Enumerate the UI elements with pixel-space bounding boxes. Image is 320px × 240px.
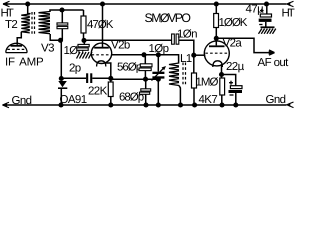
triode V2b envelope — [91, 43, 111, 63]
triode V2a envelope — [204, 41, 229, 66]
capacitor 560p stem bottom — [144, 71, 146, 80]
wire L1 top lead — [158, 55, 178, 64]
V3 anode bar — [11, 45, 23, 47]
node secondary top / tuning cap — [59, 7, 64, 12]
HT arrow left — [3, 1, 10, 7]
variable capacitor stem top — [157, 55, 159, 72]
wire L1 bottom lead — [179, 86, 180, 106]
capacitor 22u bottom lead — [235, 93, 237, 105]
svg-text:22µ: 22µ — [226, 61, 245, 73]
svg-text:Gnd: Gnd — [12, 95, 32, 107]
V2a grid (dashed) — [205, 52, 228, 54]
node J anode/AF junction — [214, 36, 219, 41]
wire bus node E to node D — [111, 78, 159, 80]
svg-text:AF out: AF out — [258, 57, 290, 69]
V2a cathode — [213, 61, 223, 67]
wire AF takeoff — [216, 38, 272, 52]
inductor L1 winding — [169, 63, 179, 86]
svg-text:IF AMP: IF AMP — [5, 57, 44, 69]
capacitor 680p bottom lead — [145, 94, 147, 105]
svg-text:47ØK: 47ØK — [87, 19, 114, 31]
resistor 470K bottom lead — [83, 33, 85, 40]
wire W1 coupling line from node B — [84, 39, 172, 41]
resistor 470K top lead — [83, 10, 85, 16]
Gnd rail — [3, 104, 287, 106]
node var cap ground — [156, 102, 161, 107]
node 560p top — [141, 52, 146, 57]
chassis ground 47u — [261, 26, 275, 28]
capacitor 22u minus — [230, 94, 234, 96]
transformer T2 secondary winding — [39, 12, 51, 34]
svg-text:1MØ: 1MØ — [196, 77, 219, 89]
capacitor 560p plates — [140, 64, 152, 67]
wire V2b grid line W2 — [112, 54, 159, 56]
svg-text:1ØØK: 1ØØK — [219, 17, 248, 29]
Gnd arrow left — [3, 102, 10, 108]
node 22K to ground — [108, 102, 113, 107]
svg-text:T2: T2 — [5, 19, 17, 31]
resistor 100K body — [214, 14, 219, 28]
wire to V2a grid — [194, 54, 206, 56]
svg-text:SMØVPO: SMØVPO — [145, 11, 191, 25]
variable capacitor plates — [152, 72, 164, 74]
triode V3 dome envelope — [6, 43, 27, 52]
wire T2 secondary bottom lead — [50, 34, 62, 40]
transformer T2 core — [31, 12, 33, 35]
node: HT/T2 junction — [25, 1, 30, 6]
AF out arrow — [269, 51, 275, 55]
capacitor 22u plates — [230, 86, 242, 89]
capacitor 47u minus — [259, 24, 262, 26]
capacitor 680p plates — [141, 89, 151, 91]
capacitor across secondary: top lead — [61, 10, 63, 23]
capacitor 680p stem — [145, 79, 147, 89]
resistor 100K top lead — [215, 4, 217, 14]
node C diode/2p junction — [59, 76, 64, 81]
node HT/V2b anode — [100, 1, 105, 6]
svg-text:1Øp: 1Øp — [149, 43, 169, 55]
resistor 1M0 bottom lead — [193, 88, 195, 105]
resistor 470K body — [81, 16, 86, 33]
diode OA91 — [58, 81, 67, 87]
wire T2 primary top lead — [28, 4, 30, 14]
wire 22u takeoff — [222, 75, 236, 86]
resistor 4K7 body — [220, 78, 225, 95]
V2b grid (dashed) — [92, 54, 111, 56]
V2b anode bar — [94, 47, 109, 49]
resistor 4K7 bottom lead — [221, 95, 223, 105]
node A secondary bottom — [58, 38, 63, 43]
node diode to ground — [58, 102, 63, 107]
node L1 ground — [178, 102, 183, 107]
V2b cathode — [97, 61, 106, 67]
V3 grid (dashed) — [7, 48, 25, 50]
svg-text:HT: HT — [282, 8, 295, 20]
resistor 22K body — [108, 82, 113, 97]
capacitor bottom lead — [61, 29, 63, 41]
inductor L1 core — [182, 63, 184, 87]
svg-text:V2a: V2a — [223, 38, 243, 50]
svg-text:V3: V3 — [41, 43, 54, 55]
V2a cathode lead — [221, 64, 223, 78]
svg-text:HT: HT — [1, 8, 14, 20]
variable capacitor arrow — [152, 67, 165, 80]
node E cathode junction — [108, 76, 113, 81]
wire detector column — [60, 40, 62, 78]
node 22u ground — [233, 102, 238, 107]
svg-text:Gnd: Gnd — [266, 94, 286, 106]
wire 2p to node E — [92, 77, 111, 79]
svg-text:22K: 22K — [88, 86, 108, 98]
capacitor 560p stem top — [144, 55, 146, 64]
resistor 100K bottom lead / V2a anode lead — [215, 28, 217, 46]
diode OA91 bottom lead — [60, 89, 62, 105]
svg-text:56Øp: 56Øp — [117, 62, 142, 74]
node var cap top — [156, 52, 161, 57]
variable capacitor bottom stem — [157, 79, 159, 105]
capacitor 2p plates — [86, 73, 88, 83]
capacitor 47u stem — [266, 4, 268, 14]
node 1M0 ground — [192, 102, 197, 107]
wire T2 secondary top lead — [50, 10, 84, 12]
wire T2 primary bottom to V3 anode — [17, 32, 21, 45]
V2a anode bar — [209, 45, 225, 47]
transformer T2 primary winding — [21, 14, 30, 33]
capacitor 10n stem — [83, 40, 85, 44]
node 680p ground — [143, 102, 148, 107]
capacitor 22u plus — [229, 81, 233, 85]
node V2a grid junction — [191, 53, 196, 58]
wire node C to 2p — [61, 77, 86, 79]
node var cap / bus — [156, 77, 161, 82]
svg-text:V2b: V2b — [111, 40, 130, 52]
resistor 22K top lead — [110, 78, 112, 82]
node HT/47u — [264, 1, 269, 6]
svg-text:OA91: OA91 — [60, 94, 87, 106]
resistor 1M0 body — [192, 73, 197, 88]
Gnd arrow right — [286, 102, 294, 108]
node 4K7 ground — [219, 102, 224, 107]
node B 470K/10n junction — [81, 38, 86, 43]
node HT/100K — [214, 1, 219, 6]
chassis ground hatch under 10n — [77, 52, 93, 59]
node cathode/22u — [219, 72, 224, 77]
svg-text:2p: 2p — [69, 63, 81, 75]
capacitor across secondary plates — [57, 23, 68, 25]
resistor 1M0 top lead — [193, 55, 195, 73]
capacitor 47u plus — [260, 9, 264, 13]
V2b anode lead from HT — [102, 4, 104, 47]
HT rail — [3, 3, 287, 5]
capacitor 10n coupling plates — [172, 34, 175, 44]
svg-text:4K7: 4K7 — [199, 94, 218, 106]
capacitor 47u plates — [260, 14, 271, 17]
wire 10n to V2a grid corner — [179, 40, 194, 55]
capacitor 47u bottom lead — [265, 22, 267, 27]
node D 560p/680p junction — [143, 77, 148, 82]
capacitor 10n plates — [78, 44, 89, 46]
svg-text:1Øn: 1Øn — [177, 29, 197, 41]
HT arrow right — [286, 1, 294, 7]
resistor 22K bottom lead — [110, 97, 112, 106]
